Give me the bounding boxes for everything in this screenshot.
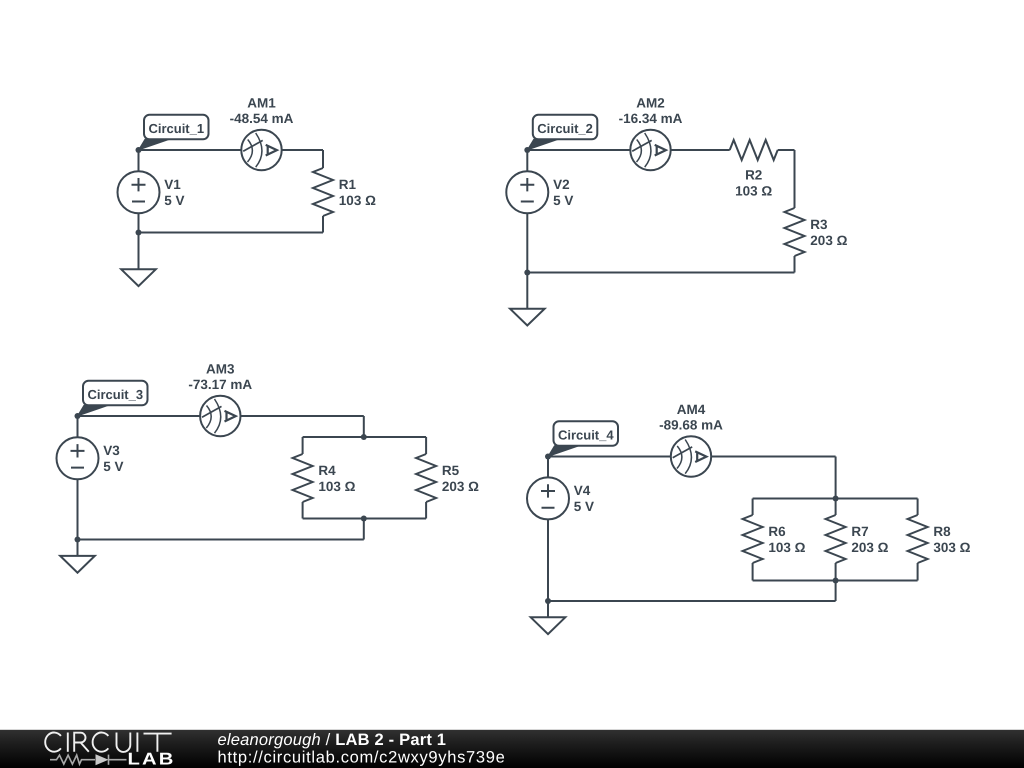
C [93,733,109,752]
resistor R5 [416,454,436,502]
T [144,734,172,752]
wire [78,539,364,541]
wire [547,601,549,617]
junction dot [361,516,367,522]
resistor R4 [293,454,313,502]
svg-text:303 Ω: 303 Ω [933,540,970,555]
net flag Circuit_1 [139,115,209,150]
U [117,733,131,752]
voltage source V2 [506,171,548,213]
svg-text:103 Ω: 103 Ω [735,183,772,198]
wire [548,456,671,458]
resistor R3 [785,208,805,256]
resistor R8 [908,515,928,563]
wire [835,581,837,602]
wire [547,519,549,601]
svg-text:103 Ω: 103 Ω [339,193,376,208]
resistor R6 [743,515,763,563]
svg-text:Circuit_4: Circuit_4 [558,427,614,442]
wire [138,150,140,171]
wire [835,563,837,581]
svg-text:AM4: AM4 [677,402,706,417]
ground [121,269,156,286]
I [136,733,138,752]
svg-text:V2: V2 [553,177,570,192]
wire [671,149,730,151]
wire [917,499,919,516]
wire [527,272,794,274]
wire [425,437,427,454]
svg-text:R1: R1 [339,177,357,192]
svg-text:103 Ω: 103 Ω [768,540,805,555]
R [74,733,89,752]
I [67,733,69,752]
wire [139,232,324,234]
wire [752,563,754,581]
svg-text:Circuit_2: Circuit_2 [537,121,593,136]
svg-text:203 Ω: 203 Ω [442,479,479,494]
voltage source V4 [527,477,569,519]
junction dot [524,270,530,276]
svg-text:R2: R2 [745,167,762,182]
svg-text:R5: R5 [442,463,460,478]
logo CIRCUIT [45,733,171,752]
wire [548,600,836,602]
net flag Circuit_4 [548,421,618,456]
C [45,733,61,752]
svg-text:5 V: 5 V [574,499,594,514]
wire [78,415,201,417]
ammeter AM2 [630,130,670,170]
svg-text:-73.17 mA: -73.17 mA [188,377,252,392]
svg-text:eleanorgough / LAB 2 - Part 1: eleanorgough / LAB 2 - Part 1 [218,731,447,749]
svg-text:-16.34 mA: -16.34 mA [619,111,683,126]
ammeter AM4 [671,436,711,476]
wire [322,150,324,168]
svg-text:http://circuitlab.com/c2wxy9yh: http://circuitlab.com/c2wxy9yhs739e [218,748,506,766]
wire bottom rail [303,518,427,520]
wire [527,149,630,151]
wire [77,416,79,437]
footer bar [0,730,1024,768]
svg-text:203 Ω: 203 Ω [810,233,847,248]
svg-text:Circuit_1: Circuit_1 [148,121,204,136]
svg-text:R3: R3 [810,217,828,232]
svg-text:5 V: 5 V [553,193,573,208]
wire [322,216,324,233]
junction dot [361,434,367,440]
wire [711,456,835,458]
junction dot [136,230,142,236]
node dot [545,454,551,460]
wire [794,256,796,273]
svg-text:R8: R8 [933,524,951,539]
wire [526,213,528,272]
junction dot [833,578,839,584]
logo diode triangle [96,754,109,765]
resistor R7 [826,515,846,563]
svg-text:AM2: AM2 [636,96,665,111]
voltage source V1 [118,171,160,213]
wire [77,540,79,556]
wire [282,149,323,151]
svg-text:Circuit_3: Circuit_3 [87,387,143,402]
voltage source V3 [57,437,99,479]
wire [526,150,528,171]
wire top rail [303,436,427,438]
wire [425,502,427,519]
wire [778,149,795,151]
ground [531,617,566,634]
svg-text:203 Ω: 203 Ω [851,540,888,555]
net flag Circuit_3 [78,381,148,416]
wire [547,457,549,478]
svg-text:R7: R7 [851,524,868,539]
wire [752,499,754,516]
junction dot [833,496,839,502]
wire [138,233,140,270]
wire [241,415,364,417]
ground [60,556,95,573]
svg-text:AM3: AM3 [206,362,235,377]
junction dot [75,537,81,543]
node dot [75,413,81,419]
svg-text:V1: V1 [164,177,181,192]
logo resistor-diode motif [50,755,127,765]
ground [510,309,545,326]
net flag Circuit_2 [527,115,597,150]
svg-text:5 V: 5 V [164,193,184,208]
resistor R1 [313,168,333,216]
node dot [524,147,530,153]
wire [77,479,79,539]
wire [794,150,796,208]
wire [363,519,365,540]
svg-text:LAB: LAB [128,750,176,768]
wire [139,149,242,151]
wire top rail [753,498,918,500]
svg-text:V4: V4 [574,483,591,498]
ammeter AM3 [200,396,240,436]
wire [917,563,919,581]
svg-text:R6: R6 [768,524,786,539]
wire [363,416,365,437]
svg-text:V3: V3 [103,443,120,458]
wire bottom rail [753,580,918,582]
wire [302,437,304,454]
wire [835,499,837,516]
ammeter AM1 [241,130,281,170]
svg-text:-89.68 mA: -89.68 mA [659,418,723,433]
svg-text:R4: R4 [318,463,336,478]
svg-text:103 Ω: 103 Ω [318,479,355,494]
wire [302,502,304,519]
svg-text:5 V: 5 V [103,459,123,474]
junction dot [545,598,551,604]
wire [138,213,140,232]
wire [526,273,528,309]
node dot [136,147,142,153]
resistor R2 [730,140,778,160]
wire [835,457,837,499]
svg-text:-48.54 mA: -48.54 mA [230,111,294,126]
svg-text:AM1: AM1 [247,96,276,111]
